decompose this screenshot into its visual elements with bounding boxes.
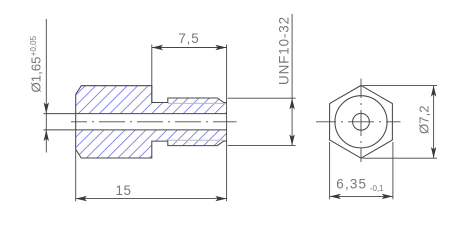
dim 7.5 extension left / shoulder <box>151 45 153 103</box>
hole bottom line <box>44 129 227 131</box>
body outline upper <box>76 86 227 103</box>
thread circle <box>335 96 387 148</box>
thread UNF extension top <box>228 97 296 99</box>
svg-text:+0,05: +0,05 <box>29 35 38 56</box>
dim phi7.2 extension bottom <box>363 157 438 159</box>
dim phi1.65 arrow lower <box>44 130 49 141</box>
thread UNF dimension line <box>291 14 293 146</box>
dim 7.5 extension right / end face <box>226 45 228 202</box>
dim phi1.65 arrow upper <box>44 102 49 113</box>
dim 7.5 arrow right <box>215 45 226 50</box>
dim phi7.2 line <box>433 85 435 158</box>
dim 15 line <box>76 198 227 200</box>
hex vertical centre line <box>360 79 362 162</box>
dim 7.5 line <box>152 47 227 49</box>
svg-text:15: 15 <box>116 183 132 198</box>
dim 6.35 extension left <box>329 142 331 199</box>
dim 6.35 arrow right <box>382 194 393 199</box>
section hatch upper half <box>76 86 227 114</box>
thread UNF extension bottom <box>228 145 296 147</box>
body outline lower <box>76 141 227 158</box>
svg-text:6,35: 6,35 <box>336 176 367 191</box>
thread UNF arrow lower <box>289 134 294 145</box>
dim 6.35 line <box>330 195 393 197</box>
dim 15 arrow left <box>76 196 87 201</box>
centre line <box>71 121 237 123</box>
svg-text:Ø1,65: Ø1,65 <box>28 57 43 93</box>
hole top line <box>44 113 227 115</box>
hex horizontal centre line <box>316 121 401 123</box>
thread UNF arrow upper <box>289 98 294 109</box>
svg-text:UNF10-32: UNF10-32 <box>277 16 292 85</box>
svg-text:Ø7,2: Ø7,2 <box>417 105 432 134</box>
left end face <box>75 94 77 149</box>
hole circle <box>353 113 370 130</box>
dim phi1.65 line <box>45 19 47 153</box>
thread UNF text <box>277 16 292 85</box>
hexagon <box>330 85 393 158</box>
dim phi7.2 text <box>417 105 432 134</box>
svg-text:7,5: 7,5 <box>178 31 199 46</box>
dim 6.35 extension right <box>392 142 394 199</box>
dim phi7.2 arrow bottom <box>431 147 436 158</box>
svg-text:-0,1: -0,1 <box>370 184 384 193</box>
dim 7.5 arrow left <box>152 45 163 50</box>
section hatch lower half <box>76 130 227 158</box>
dim 6.35 arrow left <box>330 194 341 199</box>
dim phi7.2 extension top <box>363 84 438 86</box>
dim 15 arrow right <box>215 196 226 201</box>
thread minor diameter thin line bottom <box>168 139 227 141</box>
dim phi7.2 arrow top <box>431 85 436 96</box>
dim 15 extension left <box>75 149 77 201</box>
dim phi1.65 text <box>28 35 43 92</box>
thread minor diameter thin line top <box>168 102 227 104</box>
